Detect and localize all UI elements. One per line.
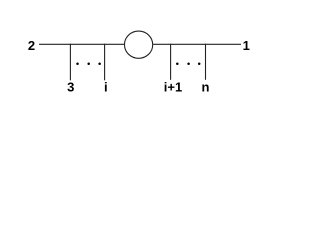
wire right segment (source to node 1) — [153, 43, 241, 45]
port stub i — [104, 44, 106, 81]
port stub 3 — [69, 44, 71, 81]
wire left segment (node 2 to source) — [39, 43, 124, 45]
port stub i+1 — [170, 44, 172, 80]
source U1 circle — [125, 31, 153, 58]
port stub n — [205, 44, 207, 80]
svg-text:i+1: i+1 — [164, 79, 182, 94]
svg-text:3: 3 — [67, 79, 74, 94]
svg-text:2: 2 — [28, 38, 35, 53]
svg-text:1: 1 — [243, 38, 250, 53]
ellipsis dots right — [176, 63, 200, 66]
ellipsis dots left — [76, 63, 101, 66]
svg-text:i: i — [104, 79, 108, 94]
svg-text:n: n — [202, 79, 210, 94]
